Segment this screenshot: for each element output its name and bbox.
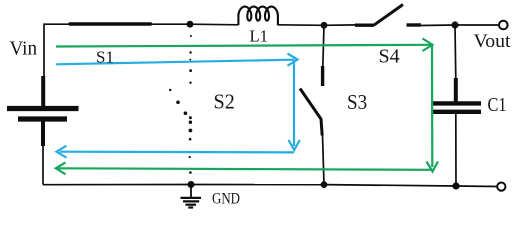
switch S4 (open) on top wire bbox=[355, 5, 421, 26]
svg-text:S4: S4 bbox=[379, 46, 400, 68]
wire bottom: left corner to ground node bbox=[43, 184, 191, 186]
S3 blade bbox=[300, 89, 322, 136]
svg-text:C1: C1 bbox=[488, 94, 507, 116]
cyan right vertical with down arrow bbox=[293, 60, 295, 146]
node C (Vout top node) bbox=[451, 21, 458, 28]
wire top: node B to switch S4 left contact bbox=[324, 24, 356, 26]
node S3 bottom bbox=[321, 181, 328, 188]
green right vertical with down arrow bbox=[431, 45, 433, 167]
terminal Vout (open circle top right) bbox=[499, 21, 508, 30]
wire left vertical: battery bottom to bottom-left corner bbox=[42, 145, 44, 185]
svg-text:S3: S3 bbox=[347, 90, 367, 114]
wire left vertical: Vin corner down to battery bbox=[43, 23, 45, 78]
svg-text:Vout: Vout bbox=[474, 31, 512, 52]
S4 right contact bbox=[407, 23, 422, 26]
cyan current path (buck loop) bbox=[56, 54, 300, 158]
cyan top line with right arrow bbox=[56, 60, 294, 65]
switch S3 (open) vertical between node B and bottom wire bbox=[300, 66, 323, 136]
C1 top plate bbox=[431, 101, 481, 105]
wire top: node A to inductor L1 left terminal bbox=[190, 23, 239, 26]
wire top: inductor right terminal to node B bbox=[278, 24, 325, 27]
wire top: node C to Vout terminal bbox=[455, 24, 499, 26]
capacitor C1 bbox=[431, 78, 481, 112]
node D (bottom right) bbox=[452, 182, 459, 189]
cyan bottom line with left arrow bbox=[60, 151, 294, 154]
node A (switching node top, x=190) bbox=[187, 21, 194, 28]
green top line with right arrow bbox=[56, 45, 431, 47]
S4 left contact bbox=[355, 24, 374, 27]
S3 top contact bbox=[321, 66, 324, 86]
wire: node C down to C1 top lead bbox=[454, 25, 457, 80]
C1 bottom plate bbox=[431, 110, 481, 114]
wire: node B down to S3 top contact bbox=[323, 25, 324, 67]
wire top left horizontal (Vin corner to node A) bbox=[44, 23, 190, 25]
wire: C1 bottom plate down to node D bbox=[455, 113, 457, 186]
svg-text:S2: S2 bbox=[214, 90, 235, 114]
terminal lower right (open circle) bbox=[497, 183, 505, 191]
green current path (boost loop) bbox=[56, 39, 438, 175]
ground bbox=[181, 185, 202, 208]
node B (top of S3) bbox=[321, 22, 328, 29]
wire bottom: S3 bottom node to node D bbox=[324, 185, 456, 186]
green bottom line with left arrow bbox=[58, 168, 433, 170]
battery positive plate (long) bbox=[7, 106, 79, 111]
inductor L1 coil bbox=[238, 7, 278, 25]
svg-text:Vin: Vin bbox=[10, 38, 38, 60]
wire bottom: node D to lower output terminal bbox=[456, 185, 497, 188]
node GND junction bbox=[188, 181, 195, 188]
voltage source Vin (battery) bbox=[7, 76, 79, 146]
svg-text:GND: GND bbox=[212, 191, 240, 208]
battery negative plate (short) bbox=[18, 116, 67, 121]
switch S2 (open, dotted phantom) vertical dotted line with blade dots bbox=[169, 35, 192, 174]
C1 top lead thick stem bbox=[454, 78, 458, 102]
wire top: S4 right contact to node C bbox=[421, 24, 456, 27]
wire: S3 lower contact down to bottom node bbox=[323, 135, 325, 185]
switch S1 (closed) thick bar on top wire bbox=[70, 22, 151, 25]
S4 blade bbox=[374, 5, 403, 26]
wire bottom: ground node to S3 bottom node bbox=[191, 184, 324, 186]
svg-text:L1: L1 bbox=[250, 27, 269, 46]
battery bottom lead thick stem bbox=[41, 122, 45, 147]
svg-text:S1: S1 bbox=[96, 48, 114, 67]
battery top lead thick stem bbox=[41, 76, 45, 106]
